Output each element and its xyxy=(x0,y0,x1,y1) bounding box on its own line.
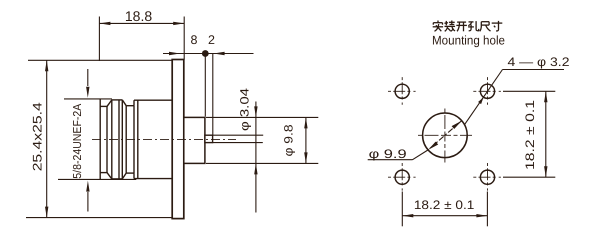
relief step vertical xyxy=(133,106,135,173)
label Chinese title: 安装开孔尺寸 (drawn strokes) xyxy=(433,21,503,32)
connector body outline xyxy=(100,60,212,219)
dimension 8/2 line xyxy=(163,53,254,55)
dimension 25.4 line xyxy=(46,60,48,217)
rear body top edge xyxy=(134,99,172,101)
dimension 18.8 extension line right xyxy=(183,17,185,60)
svg-text:5/8-24UNEF-2A: 5/8-24UNEF-2A xyxy=(72,103,84,178)
svg-text:18.2 ± 0.1: 18.2 ± 0.1 xyxy=(523,100,537,170)
junction dot at boss end xyxy=(202,50,209,57)
nut inner vertical xyxy=(118,100,120,179)
nut right vertical xyxy=(125,106,127,173)
mounting hole bottom-right xyxy=(480,170,494,184)
boss bottom extension line xyxy=(206,162,318,164)
right dim arrow bottom xyxy=(544,166,547,177)
dimension phi 3.04 line xyxy=(255,102,257,213)
char chi xyxy=(480,22,491,32)
bottom dim right extension line xyxy=(486,192,488,227)
char zhuang xyxy=(445,21,456,32)
front top flat xyxy=(100,105,107,107)
phi 9.9 leader underline xyxy=(368,159,413,161)
rear body step bottom xyxy=(133,173,135,179)
svg-text:φ 9.9: φ 9.9 xyxy=(369,147,407,161)
4-phi3.2 leader underline xyxy=(503,69,565,71)
phi 3.04 arrow up xyxy=(254,163,257,174)
mounting hole top-left xyxy=(395,84,409,98)
phi 9.9 diameter arrow lower xyxy=(428,142,438,150)
right dim arrow top xyxy=(544,91,547,102)
crosshair top-right hole xyxy=(473,77,501,105)
bottom dim left extension line xyxy=(401,192,403,227)
rear body bottom edge xyxy=(134,178,172,180)
thread crest extension line bottom xyxy=(58,178,136,180)
rear boss xyxy=(184,117,205,163)
front step vertical xyxy=(106,106,108,172)
svg-text:8: 8 xyxy=(191,33,198,47)
phi 3.04 arrow down xyxy=(254,106,257,117)
bottom dimension 18.2 line xyxy=(402,215,487,217)
centerline left view xyxy=(92,138,236,140)
dimension 25.4 arrow top xyxy=(45,60,48,71)
mounting hole top-right xyxy=(480,84,494,98)
nut corner vertical right xyxy=(121,100,123,179)
nut left slope top xyxy=(107,100,112,107)
dimension phi 9.8 line xyxy=(305,117,307,163)
phi 9.9 leader knee xyxy=(413,150,429,160)
front face xyxy=(99,99,101,180)
rear body divider xyxy=(137,100,139,178)
dimension 8 arrow xyxy=(169,52,180,55)
relief flat bottom xyxy=(126,172,134,174)
4-phi3.2 leader diagonal xyxy=(465,70,503,125)
right dim bottom extension line xyxy=(503,176,555,178)
bottom dim arrow left xyxy=(402,214,413,217)
dimension 18.8 extension line left xyxy=(98,17,100,62)
crosshair bottom-right hole xyxy=(473,163,501,191)
thread callout arrow top xyxy=(87,69,89,86)
pin top extension line xyxy=(213,134,264,136)
crosshair top-left hole xyxy=(388,77,416,105)
nut corner vertical left xyxy=(111,100,113,179)
nut bottom flat xyxy=(112,178,123,180)
extension line boss end xyxy=(204,54,206,117)
center hole horizontal centerline xyxy=(418,134,472,136)
svg-text:18.2 ± 0.1: 18.2 ± 0.1 xyxy=(414,198,475,212)
bottom dim arrow right xyxy=(476,214,487,217)
flange xyxy=(172,60,184,219)
svg-text:Mounting hole: Mounting hole xyxy=(432,33,505,47)
svg-text:2: 2 xyxy=(208,33,215,47)
nut right slope bottom xyxy=(122,173,126,179)
nut right slope top xyxy=(122,100,126,106)
right dim top extension line xyxy=(503,90,555,92)
boss top extension line xyxy=(206,116,318,118)
phi 9.8 arrow down xyxy=(304,152,307,163)
rear body step top xyxy=(133,100,135,106)
svg-text:18.8: 18.8 xyxy=(125,8,152,24)
svg-text:4 — φ 3.2: 4 — φ 3.2 xyxy=(508,55,570,69)
svg-text:φ 3.04: φ 3.04 xyxy=(238,88,252,131)
phi 9.9 diameter line xyxy=(428,121,462,150)
crosshair bottom-left hole xyxy=(388,163,416,191)
front bottom flat xyxy=(100,172,107,174)
char kai xyxy=(456,22,467,31)
phi 9.9 diameter arrow upper xyxy=(452,121,462,129)
dimension 18.8 arrow right xyxy=(173,22,184,25)
dimension 18.8 arrow left xyxy=(99,22,110,25)
svg-text:25.4x25.4: 25.4x25.4 xyxy=(31,102,45,171)
pin bottom extension line xyxy=(213,142,263,144)
dimension 25.4 top extension line xyxy=(28,59,172,61)
phi 9.8 arrow up xyxy=(304,117,307,128)
char kong xyxy=(468,21,479,31)
mounting hole bottom-left xyxy=(395,170,409,184)
svg-text:φ 9.8: φ 9.8 xyxy=(282,124,296,156)
4-phi3.2 leader arrow xyxy=(478,97,483,104)
dimension 18.8 line xyxy=(99,22,184,24)
thread crest extension line top xyxy=(64,98,112,100)
rear pin xyxy=(205,135,213,142)
dimension 25.4 arrow bottom xyxy=(45,207,48,218)
center hole vertical centerline xyxy=(444,109,446,163)
right dimension 18.2 line xyxy=(545,91,547,177)
extension line pin end xyxy=(212,54,214,135)
dimension 25.4 bottom extension line xyxy=(26,217,172,219)
dimension 2 arrow xyxy=(214,52,225,55)
char cun xyxy=(492,21,503,31)
relief flat top xyxy=(126,105,134,107)
nut top flat xyxy=(112,99,123,101)
char An xyxy=(433,21,443,32)
center hole circle xyxy=(423,113,468,158)
nut left slope bottom xyxy=(107,173,112,179)
thread callout arrow bottom xyxy=(87,192,89,212)
